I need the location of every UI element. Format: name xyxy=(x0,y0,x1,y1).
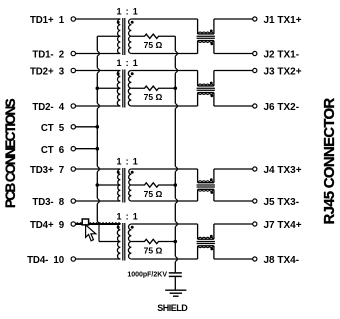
svg-text:SHIELD: SHIELD xyxy=(157,303,188,313)
wire CT pin 6 to center-tap bus xyxy=(76,148,98,150)
wire pin 2 to destination xyxy=(76,53,121,55)
wire pin 1 to destination xyxy=(76,18,121,20)
svg-text:J8 TX4-: J8 TX4- xyxy=(264,255,300,266)
common-mode choke L2 xyxy=(197,71,215,107)
svg-text:CT 6: CT 6 xyxy=(41,145,65,156)
svg-text:J6 TX2-: J6 TX2- xyxy=(264,102,300,113)
svg-text:1 : 1: 1 : 1 xyxy=(116,212,138,222)
pin J1 TX1+ (RJ45 side) xyxy=(253,15,302,26)
pin CT 5 (PCB side) xyxy=(41,123,76,134)
wire pin 3 to destination xyxy=(76,70,121,72)
svg-text:CT 5: CT 5 xyxy=(41,123,65,134)
svg-text:J5 TX3-: J5 TX3- xyxy=(264,197,300,208)
pin TD3+ 7 (PCB side) xyxy=(30,165,76,176)
transformer T4 ratio 1:1 xyxy=(116,212,138,261)
svg-text:1 : 1: 1 : 1 xyxy=(116,7,138,17)
wire T3 primary center tap to CT bus xyxy=(97,184,120,186)
svg-text:75 Ω: 75 Ω xyxy=(144,245,163,255)
pin TD2- 4 (PCB side) xyxy=(32,102,75,113)
svg-text:J2 TX1-: J2 TX1- xyxy=(264,50,300,61)
wire choke to RJ45 pin J8 xyxy=(214,258,253,260)
pin J6 TX2- (RJ45 side) xyxy=(253,102,299,113)
wire T3 secondary bottom to choke L3 xyxy=(131,200,197,202)
resistor R2 75 ohm xyxy=(131,86,175,102)
resistor R1 75 ohm xyxy=(131,34,175,50)
wire pin 7 to destination xyxy=(76,168,121,170)
svg-text:75 Ω: 75 Ω xyxy=(144,189,163,199)
pin TD2+ 3 (PCB side) xyxy=(30,67,76,78)
wire T3 secondary top to choke L3 xyxy=(131,168,197,170)
wire pin 8 to destination xyxy=(76,200,121,202)
pin J2 TX1- (RJ45 side) xyxy=(253,50,299,61)
pin J7 TX4+ (RJ45 side) xyxy=(253,220,302,231)
wire T1 secondary bottom to choke L1 xyxy=(131,53,197,55)
common-mode choke L4 xyxy=(197,224,215,259)
junction CT pin 6 on bus xyxy=(96,147,100,151)
wire choke to RJ45 pin J7 xyxy=(214,223,253,225)
node CT bus (center-tap bus) xyxy=(97,36,99,241)
wire choke to RJ45 pin J5 xyxy=(214,200,253,202)
junction CT pin 5 on bus xyxy=(96,125,100,129)
svg-text:J4 TX3+: J4 TX3+ xyxy=(264,165,302,176)
svg-text:J7 TX4+: J7 TX4+ xyxy=(264,220,302,231)
wire choke to RJ45 pin J6 xyxy=(214,105,253,107)
wire CT pin 5 to center-tap bus xyxy=(76,126,98,128)
wire T1 secondary top to choke L1 xyxy=(131,18,197,20)
transformer T3 ratio 1:1 xyxy=(116,157,138,203)
wire T4 primary center tap to CT bus xyxy=(99,241,120,243)
svg-text:1 : 1: 1 : 1 xyxy=(116,157,138,167)
ground symbol (SHIELD) xyxy=(157,290,188,313)
capacitor C1 1000pF/2KV xyxy=(127,271,181,278)
wire T2 secondary top to choke L2 xyxy=(131,70,197,72)
wire T1 primary center tap to CT bus xyxy=(97,35,120,37)
resistor R3 75 ohm xyxy=(131,183,175,199)
wire T2 secondary bottom to choke L2 xyxy=(131,105,197,107)
wire T2 primary center tap to CT bus xyxy=(97,87,120,89)
wire pin 9 to transformer T4 (selected, textured) xyxy=(76,223,121,224)
svg-text:PCB CONNECTIONS: PCB CONNECTIONS xyxy=(3,98,18,208)
wire T4 secondary top to choke L4 xyxy=(131,223,197,225)
pin TD3- 8 (PCB side) xyxy=(32,197,75,208)
svg-text:TD2- 4: TD2- 4 xyxy=(32,102,64,113)
common-mode choke L1 xyxy=(197,19,215,54)
pin TD1- 2 (PCB side) xyxy=(32,50,75,61)
mouse cursor (pointer) xyxy=(86,225,96,241)
transformer T1 ratio 1:1 xyxy=(116,7,138,55)
transformer T2 ratio 1:1 xyxy=(116,58,138,107)
wire choke to RJ45 pin J4 xyxy=(214,168,253,170)
pin TD4- 10 (PCB side) xyxy=(27,255,75,266)
wire choke to RJ45 pin J2 xyxy=(214,53,253,55)
selection handle square on wire at pin 9 xyxy=(82,219,88,225)
svg-text:75 Ω: 75 Ω xyxy=(144,40,163,50)
svg-text:TD4- 10: TD4- 10 xyxy=(27,255,64,266)
junction R4 on termination bus xyxy=(174,240,178,244)
svg-text:75 Ω: 75 Ω xyxy=(144,92,163,102)
wire T4 secondary bottom to choke L4 xyxy=(131,258,197,260)
junction R3 on termination bus xyxy=(174,183,178,187)
wire choke to RJ45 pin J1 xyxy=(214,18,253,20)
node termination bus (75-ohm common node) xyxy=(175,36,177,272)
svg-text:TD4+ 9: TD4+ 9 xyxy=(30,220,65,231)
svg-text:TD1+ 1: TD1+ 1 xyxy=(30,15,65,26)
wire capacitor to shield ground xyxy=(174,277,176,290)
pin TD4+ 9 (PCB side) xyxy=(30,220,76,231)
pin TD1+ 1 (PCB side) xyxy=(30,15,76,26)
svg-text:1000pF/2KV: 1000pF/2KV xyxy=(127,271,167,278)
svg-text:TD3+ 7: TD3+ 7 xyxy=(30,165,64,176)
junction T2 center tap on CT bus xyxy=(96,86,100,90)
svg-text:J1 TX1+: J1 TX1+ xyxy=(264,15,302,26)
svg-text:J3 TX2+: J3 TX2+ xyxy=(264,67,302,78)
svg-text:1 : 1: 1 : 1 xyxy=(116,58,138,68)
pin J4 TX3+ (RJ45 side) xyxy=(253,165,302,176)
svg-text:TD1- 2: TD1- 2 xyxy=(32,50,64,61)
pin CT 6 (PCB side) xyxy=(41,145,76,156)
svg-text:RJ45 CONNECTOR: RJ45 CONNECTOR xyxy=(321,98,338,225)
svg-text:TD3- 8: TD3- 8 xyxy=(32,197,64,208)
junction T3 center tap on CT bus xyxy=(96,183,100,187)
resistor R4 75 ohm xyxy=(131,239,175,255)
wire pin 4 to destination xyxy=(76,105,121,107)
wire choke to RJ45 pin J3 xyxy=(214,70,253,72)
junction R2 on termination bus xyxy=(174,86,178,90)
common-mode choke L3 xyxy=(197,169,215,201)
pin J3 TX2+ (RJ45 side) xyxy=(253,67,302,78)
svg-text:TD2+ 3: TD2+ 3 xyxy=(30,67,65,78)
pin J8 TX4- (RJ45 side) xyxy=(253,255,299,266)
pin J5 TX3- (RJ45 side) xyxy=(253,197,299,208)
wire pin 10 to destination xyxy=(76,258,121,260)
